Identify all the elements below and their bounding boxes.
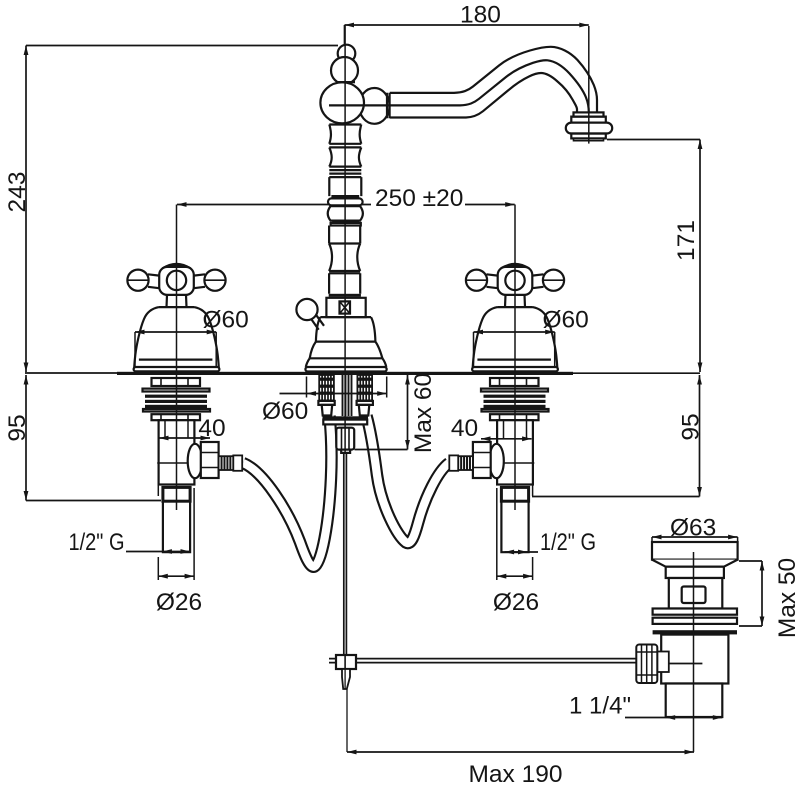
- svg-text:Max 190: Max 190: [469, 761, 563, 785]
- svg-text:95: 95: [4, 414, 31, 441]
- svg-text:1 1/4": 1 1/4": [569, 693, 631, 720]
- svg-text:1/2" G: 1/2" G: [69, 529, 125, 556]
- svg-text:250 ±20: 250 ±20: [375, 185, 463, 212]
- svg-text:180: 180: [460, 2, 501, 29]
- svg-text:171: 171: [673, 220, 700, 261]
- svg-text:Max 50: Max 50: [774, 558, 800, 638]
- svg-text:Ø26: Ø26: [493, 589, 539, 616]
- svg-text:40: 40: [451, 415, 478, 442]
- svg-text:40: 40: [198, 415, 225, 442]
- svg-text:Ø60: Ø60: [203, 307, 249, 334]
- svg-text:Max 60: Max 60: [410, 373, 437, 453]
- svg-text:Ø63: Ø63: [670, 515, 716, 542]
- svg-text:243: 243: [4, 172, 31, 213]
- svg-text:Ø60: Ø60: [262, 398, 308, 425]
- svg-text:95: 95: [678, 413, 705, 440]
- svg-text:Ø26: Ø26: [156, 589, 202, 616]
- svg-text:1/2" G: 1/2" G: [540, 529, 596, 556]
- svg-text:Ø60: Ø60: [543, 307, 589, 334]
